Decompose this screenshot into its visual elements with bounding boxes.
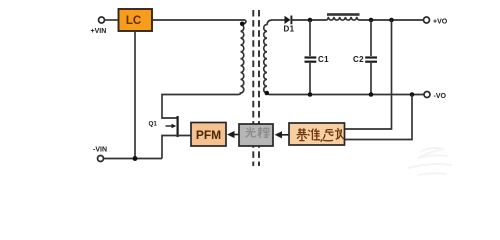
transistor Q1 channel bar <box>177 116 179 137</box>
svg-text:LC: LC <box>126 15 141 27</box>
filter block LC <box>119 9 153 31</box>
wire feedback - sense <box>345 95 412 140</box>
wire primary bottom to Q1 drain <box>162 95 238 119</box>
svg-text:C2: C2 <box>353 55 364 64</box>
transistor Q1 gate arrow <box>166 125 172 127</box>
transformer T1 primary winding <box>238 24 244 94</box>
svg-text:Q1: Q1 <box>149 121 158 128</box>
terminal -VO <box>424 92 430 98</box>
terminal -VIN <box>98 156 104 162</box>
wire secondary to diode <box>272 19 285 21</box>
wire LC bottom to ground rail <box>134 31 136 159</box>
terminal +VIN <box>99 17 105 23</box>
svg-text:+VIN: +VIN <box>91 28 107 35</box>
node C1 return <box>308 92 313 97</box>
polarity dot primary <box>240 22 245 27</box>
diode D1 <box>285 16 291 24</box>
watermark <box>408 148 452 175</box>
node feedback tap - <box>410 92 415 97</box>
node C2 return <box>369 92 374 97</box>
terminal +VO <box>424 17 430 23</box>
capacitor C1 <box>309 20 311 56</box>
svg-text:PFM: PFM <box>196 128 221 142</box>
transformer core <box>252 10 254 166</box>
wire secondary return rail <box>270 94 424 96</box>
svg-text:+VO: +VO <box>433 19 448 26</box>
arrow optocoupler to PFM <box>234 134 239 136</box>
arrow reference to optocoupler <box>282 134 289 136</box>
polarity dot secondary <box>265 91 270 96</box>
wire Q1 source / PFM drive <box>162 136 191 159</box>
optocoupler block (guang ou) <box>239 124 273 146</box>
svg-text:D1: D1 <box>284 25 295 34</box>
transformer T1 secondary winding <box>264 20 272 95</box>
node diode/C1 junction <box>308 18 313 23</box>
svg-text:-VO: -VO <box>434 93 447 100</box>
reference/op-amp block (jizhun yunfang) <box>289 123 345 145</box>
wire +VIN to LC <box>105 19 119 21</box>
wire inductor to +VO <box>357 17 424 20</box>
inductor L1 winding <box>328 17 357 20</box>
svg-text:-VIN: -VIN <box>93 147 107 154</box>
controller block PFM <box>191 123 226 147</box>
capacitor C2 <box>370 20 372 56</box>
wire ground rail to -VIN <box>104 158 162 160</box>
wire diode to inductor <box>291 17 328 20</box>
node inductor/C2 junction <box>369 18 374 23</box>
inductor L1 core bar <box>327 13 360 16</box>
wire feedback + sense <box>345 20 392 129</box>
node feedback tap + <box>389 18 394 23</box>
svg-text:C1: C1 <box>318 55 329 64</box>
node LC return junction <box>133 156 138 161</box>
wire LC to transformer primary <box>152 20 246 24</box>
